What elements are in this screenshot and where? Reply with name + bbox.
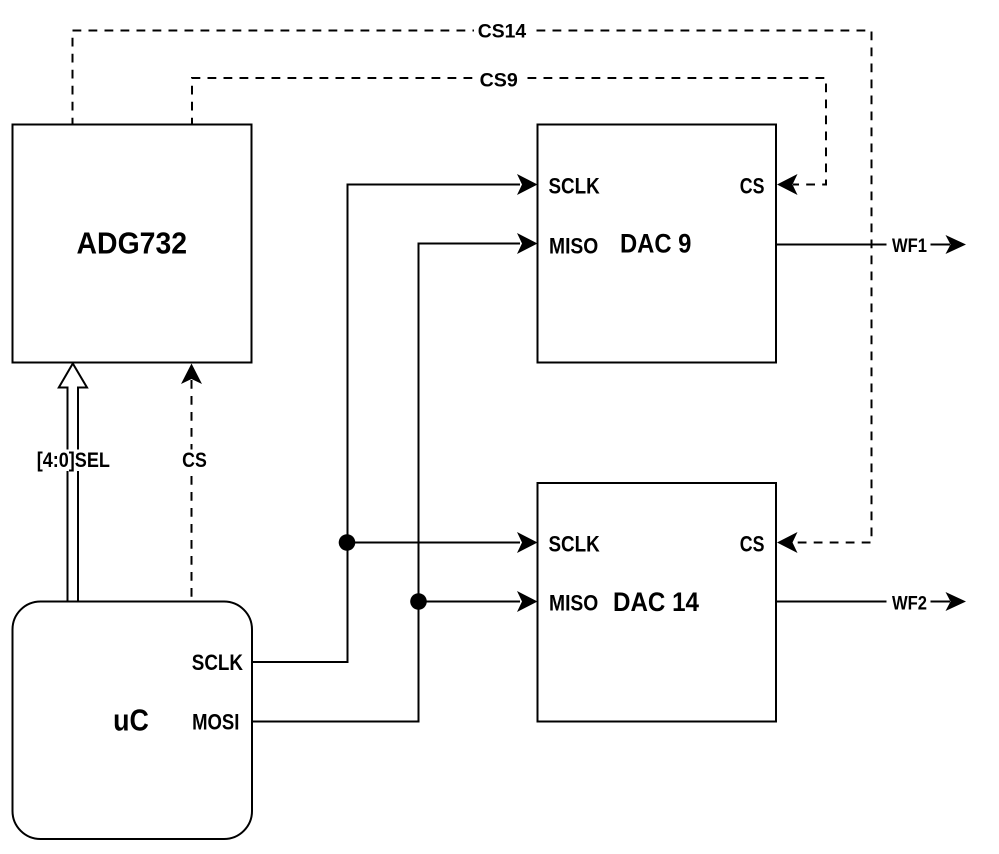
svg-text:MOSI: MOSI [192, 709, 239, 734]
svg-text:DAC 14: DAC 14 [613, 587, 699, 617]
arrowhead CS9 into DAC 9 CS pin [777, 174, 798, 195]
wire CS14 dashed net [73, 20, 872, 554]
wire SCLK branch to DAC 14 [348, 542, 521, 544]
wire [4:0]SEL bus block arrow from uC to ADG732 [34, 364, 113, 602]
node label CS14 [474, 20, 530, 43]
svg-text:CS: CS [740, 173, 765, 198]
svg-text:SCLK: SCLK [549, 532, 600, 557]
wire SCLK net from uC to DAC 9 [252, 174, 538, 662]
arrowhead CS into ADG732 [181, 364, 202, 385]
svg-text:MISO: MISO [549, 591, 598, 616]
svg-text:WF2: WF2 [892, 593, 927, 615]
svg-text:SCLK: SCLK [549, 173, 600, 198]
node label CS9 [476, 67, 521, 90]
arrowhead CS14 into DAC 14 CS pin [777, 532, 798, 553]
junction MOSI node [410, 593, 427, 610]
svg-text:MISO: MISO [549, 233, 598, 258]
svg-text:uC: uC [113, 702, 149, 737]
svg-text:CS9: CS9 [480, 69, 518, 91]
node label WF1 [887, 236, 931, 256]
svg-text:ADG732: ADG732 [77, 226, 188, 261]
block DAC 14 [538, 483, 777, 722]
wire CS9 dashed net [192, 67, 826, 195]
arrowhead WF2 [946, 592, 967, 611]
svg-text:SCLK: SCLK [192, 650, 243, 675]
block ADG732 [13, 125, 252, 363]
svg-text:CS14: CS14 [478, 21, 527, 43]
arrowhead WF1 [946, 235, 967, 254]
arrowhead MOSI into DAC 9 MISO [517, 233, 538, 254]
node label [4:0]SEL [34, 450, 113, 472]
junction SCLK node [339, 534, 356, 551]
wire CS dashed from uC to ADG732 [179, 364, 210, 602]
node label CS [179, 450, 210, 472]
svg-text:CS: CS [182, 449, 207, 472]
svg-text:CS: CS [740, 532, 765, 557]
wire MOSI branch to DAC 14 MISO [419, 601, 521, 603]
node label WF2 [887, 593, 931, 613]
svg-text:WF1: WF1 [892, 235, 927, 257]
arrowhead MOSI into DAC 14 MISO [517, 591, 538, 612]
arrowhead SCLK into DAC 14 [517, 532, 538, 553]
wire MOSI net from uC to DAC MISO pins [252, 233, 538, 722]
arrowhead SCLK into DAC 9 [517, 174, 538, 195]
svg-text:DAC 9: DAC 9 [620, 229, 692, 259]
wire WF2 output [776, 592, 966, 615]
wire WF1 output [776, 235, 966, 257]
block uC microcontroller [13, 602, 253, 840]
block DAC 9 [538, 125, 777, 363]
svg-text:[4:0]SEL: [4:0]SEL [37, 449, 110, 472]
